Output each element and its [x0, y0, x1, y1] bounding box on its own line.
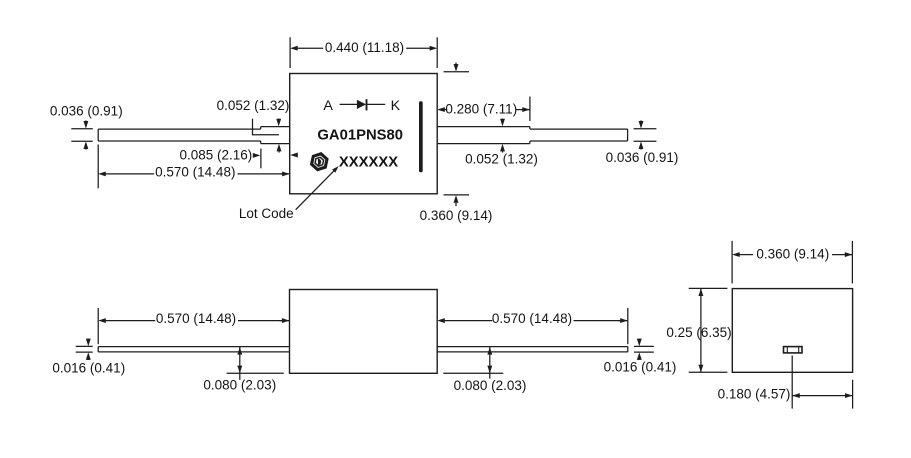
svg-text:0.036 (0.91): 0.036 (0.91): [50, 103, 123, 118]
svg-text:0.085 (2.16): 0.085 (2.16): [179, 148, 252, 163]
svg-text:0.052 (1.32): 0.052 (1.32): [465, 152, 538, 167]
svg-text:0.052 (1.32): 0.052 (1.32): [217, 98, 290, 113]
svg-text:0.360 (9.14): 0.360 (9.14): [756, 246, 829, 261]
svg-text:GA01PNS80: GA01PNS80: [317, 128, 403, 144]
svg-text:0.570 (14.48): 0.570 (14.48): [156, 311, 236, 326]
svg-text:0.036 (0.91): 0.036 (0.91): [606, 150, 679, 165]
svg-text:K: K: [391, 98, 401, 114]
svg-text:0.25 (6.35): 0.25 (6.35): [666, 325, 731, 340]
svg-text:0.016 (0.41): 0.016 (0.41): [604, 360, 677, 375]
svg-text:0.570 (14.48): 0.570 (14.48): [492, 311, 572, 326]
svg-text:0.360 (9.14): 0.360 (9.14): [420, 208, 493, 223]
svg-text:Lot Code: Lot Code: [239, 206, 294, 221]
svg-text:0.570 (14.48): 0.570 (14.48): [155, 165, 235, 180]
svg-text:0.440 (11.18): 0.440 (11.18): [325, 40, 404, 55]
svg-text:XXXXXX: XXXXXX: [339, 154, 398, 170]
svg-text:0.180 (4.57): 0.180 (4.57): [718, 387, 791, 402]
svg-text:0.280 (7.11): 0.280 (7.11): [445, 101, 517, 116]
svg-text:0.080 (2.03): 0.080 (2.03): [454, 378, 527, 393]
svg-text:0.080 (2.03): 0.080 (2.03): [203, 377, 276, 392]
svg-text:A: A: [323, 98, 333, 114]
svg-text:0.016 (0.41): 0.016 (0.41): [52, 361, 125, 376]
